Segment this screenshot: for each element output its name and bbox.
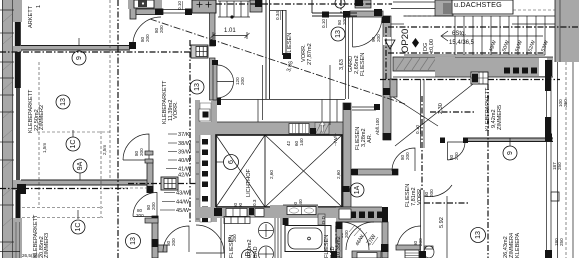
shaft grid box on zimmer5 wall [471,72,488,84]
gard door arc [353,17,383,47]
bad9 pipe wall [275,218,281,258]
circle 13 zimmer2 [56,95,70,109]
far right edge line [572,62,574,258]
chimney block with flues [192,0,216,13]
stair strip channel outline [200,103,211,222]
wall left core black upper [15,22,21,46]
svg-text:10,35m2: 10,35m2 [336,236,342,258]
svg-text:200: 200 [232,234,237,242]
svg-text:200: 200 [342,17,347,25]
stair core vertical wall between corridor and stairs [210,13,216,46]
svg-text:BAD: BAD [253,246,259,258]
svg-text:27,87m2: 27,87m2 [307,43,313,65]
svg-text:FLIESEN: FLIESEN [360,53,366,76]
corridor west wall black post [382,207,388,222]
wall block top with black end [250,0,262,12]
stair direction arrow [441,31,448,41]
section line horizontal y203 [424,202,470,204]
circle 13 vorr1139 [190,80,204,94]
zimmer3 door arc in wall D [133,193,157,217]
section line horizontal y53 stairs [388,52,545,54]
stair walking line dot [230,15,233,18]
top wall black blob left of chimney [210,40,216,46]
section line vertical x341 top [340,0,342,13]
svg-text:250: 250 [563,99,568,107]
svg-text:0.10: 0.10 [321,19,326,28]
bad9 toilet 2 [259,246,274,258]
wall C black corner junction [17,184,26,194]
svg-text:1: 1 [36,5,42,8]
bathtub [285,226,331,252]
shaft grid box on section line left [161,177,178,190]
svg-text:FLIESEN: FLIESEN [355,127,361,150]
svg-text:200: 200 [151,202,156,210]
svg-text:200: 200 [429,189,434,197]
stair strip winder squares [199,109,210,222]
AR door arc [392,148,415,171]
vorraum781 east wall [421,190,425,258]
svg-text:0.10: 0.10 [177,1,182,10]
section line vertical x488 [487,84,489,258]
anteroom south wall piece with fixture [352,251,381,258]
svg-text:FLIESEN: FLIESEN [324,235,330,258]
gard north wall band [350,11,383,17]
right exterior wall posts and lines [545,62,559,258]
zimmer5 west wall thin [421,79,425,148]
bathtub corner blacks [283,218,289,225]
upper wall with door panel [136,9,163,15]
dashed line right edge x566 [565,62,567,258]
vorr/gard divider wall [346,16,349,99]
svg-text:13: 13 [475,231,482,239]
lichthof south wall [196,207,345,218]
svg-text:9,42m2: 9,42m2 [491,109,497,128]
svg-text:5.92: 5.92 [439,217,445,228]
svg-text:13: 13 [60,98,67,106]
svg-text:140: 140 [299,138,304,146]
wall left tick marks [0,10,20,252]
wall D vertical corridor-left upper [147,160,153,192]
svg-text:250: 250 [557,162,562,170]
corridor strip above gallery wall lines [217,100,345,123]
wall left core black lower [16,190,21,218]
svg-text:u.DACHSTEG: u.DACHSTEG [454,0,502,9]
svg-text:26,43m2: 26,43m2 [503,236,509,258]
svg-text:200: 200 [454,152,459,160]
svg-text:15,4/36,5: 15,4/36,5 [449,40,475,46]
step numbers column upper 37-42 [176,132,192,214]
svg-text:250: 250 [559,238,564,246]
svg-text:±0,00: ±0,00 [429,39,435,53]
wall below shaft [210,58,216,100]
svg-text:KLEBEPARKETT: KLEBEPARKETT [28,89,34,133]
svg-text:6: 6 [228,160,235,164]
dimension 5.92 [446,196,448,258]
corridor door arc west [163,226,189,252]
step leader ticks [160,134,177,210]
section line vertical x420 [421,96,423,190]
top right exterior corner wall [555,0,579,62]
wall black square gallery band left [310,128,316,134]
anteroom door arcs crossing [341,222,369,250]
wall corridor vertical x267 [266,0,270,99]
gallery wall horizontal above lichthof [196,122,345,135]
svg-text:6Stg.: 6Stg. [452,31,466,37]
washing machine box [405,250,419,258]
svg-text:FLIESEN: FLIESEN [405,184,411,207]
apartment top wall right section [435,57,553,77]
svg-text:200: 200 [139,148,144,156]
OP20 diamond [412,38,419,48]
svg-text:9: 9 [507,151,514,155]
svg-text:1,5m: 1,5m [42,143,47,153]
svg-text:7,81m2: 7,81m2 [411,187,417,206]
dashed knee-wall horizontal y132 [37,131,110,133]
wall label circle 9 right [503,138,517,160]
section line horizontal y52 [0,51,190,53]
svg-text:9A: 9A [77,161,84,170]
top wall 4 black squares [504,68,537,74]
diagonal line bottom right to zimmer4 [393,97,438,126]
lichthof right cell X [265,135,342,207]
wall left hatch marks [3,14,12,250]
corridor west wall gray [382,222,388,258]
circle 9A mid room [73,159,87,180]
top-left door arc 1 [133,17,161,47]
svg-text:3,28m2: 3,28m2 [361,128,367,147]
svg-text:0.34: 0.34 [275,11,280,20]
svg-text:200: 200 [145,34,150,42]
washbasin double box [287,207,316,215]
svg-text:20,85m2: 20,85m2 [39,236,45,258]
section line horizontal y188 left [0,188,128,190]
stair step numbers diagonal [488,39,550,52]
AR room west wall already lichthof east; AR south wall [352,169,398,175]
fixture box top-left room [128,0,162,9]
svg-text:KLEBEPA: KLEBEPA [515,233,521,258]
wall black post zimmer5 wall right end [545,134,552,142]
lichthof east wall black ends [344,103,351,110]
wall left exterior band [2,0,22,258]
dimension 1.01 with line [211,28,250,39]
circle 1A label [350,183,364,197]
svg-text:Abfl.100: Abfl.100 [375,118,380,135]
svg-text:44/W: 44/W [176,200,190,206]
wall left core dark lower-mid [16,88,20,180]
svg-text:200: 200 [240,77,245,85]
lichthof south wall black posts [214,208,222,216]
svg-text:LICHTHOF: LICHTHOF [246,168,252,197]
section line horizontal y4 top [216,3,392,5]
door arc wall D upper [123,134,149,160]
svg-text:--/W/--: --/W/-- [333,133,338,146]
svg-text:ZIMMER5: ZIMMER5 [497,105,503,130]
svg-text:2,5m: 2,5m [102,145,107,155]
svg-text:1A: 1A [354,185,361,194]
svg-text:43/W: 43/W [176,191,190,197]
stair landing lines [391,2,455,24]
anteroom step hatch marks [349,225,378,245]
zimmer5 door arc [448,142,466,160]
svg-text:26,5(36): 26,5(36) [22,253,40,258]
section line vertical x118 [117,0,119,258]
lichthof outer frame [216,135,342,207]
svg-text:1C: 1C [70,140,77,149]
diagonal dimension 2,30 line [395,84,473,146]
gallery skylight boxes [289,124,309,134]
section line horizontal y112 left part [430,111,475,113]
section line horizontal y79 [380,79,471,81]
wall black cap gard east wall bottom [383,133,392,140]
stair strip west rail [195,100,200,222]
top wall white gap and black end [539,58,547,76]
wall left lower band lines [16,222,20,258]
shaft grid box top [191,45,208,58]
svg-text:2,60: 2,60 [269,170,274,179]
u.DACHSTEG box [452,0,513,14]
section line vertical x190 [189,40,191,224]
stair hall west wall (gard east wall) [383,16,391,140]
svg-text:45/W: 45/W [176,208,190,214]
dashed stub top right of u.dachsteg [513,9,555,11]
svg-text:37/K: 37/K [178,132,190,138]
svg-text:13: 13 [194,83,201,91]
svg-text:FLIESEN: FLIESEN [287,33,293,56]
svg-text:2,60: 2,60 [336,170,341,179]
wall D black end [147,186,154,193]
svg-text:200: 200 [376,34,381,42]
double door vorr1139 [212,60,234,100]
lichthof divider [264,135,266,207]
wall D lower black blobs [152,216,159,223]
svg-text:9: 9 [76,56,83,60]
corridor door arc east [196,225,224,253]
circle 1C zimmer3 [71,210,85,234]
svg-text:AR.: AR. [367,133,373,143]
corridor south wall stub left [145,218,158,223]
svg-text:ARKETT: ARKETT [28,5,34,28]
main stair treads [404,16,555,55]
small stair below lichthof window [224,217,250,224]
gallery hatched pad with arrow [315,122,329,134]
zimmer5 south wall with door [440,134,553,144]
svg-text:1.01: 1.01 [224,28,236,34]
section circle 5 top [335,0,345,8]
circle 1B label [242,250,255,258]
bad9 toilet 1 [259,223,274,239]
circle 1C mid room [66,130,80,151]
svg-text:200: 200 [136,213,144,218]
wall D vertical corridor-left lower [152,216,158,258]
svg-text:200: 200 [159,25,164,33]
svg-text:13: 13 [130,237,137,245]
lichthof left cell X [216,135,265,207]
wc room south wall [396,245,420,250]
dashed corner piece near zimmer3 door [110,187,152,189]
stair treads top middle [218,1,250,17]
top wall black blobs [322,12,329,18]
left corridor wall stubs mid [145,151,153,155]
section line horizontal y27 stairs [388,26,579,28]
svg-text:KLEBEPARKETT: KLEBEPARKETT [162,80,168,124]
circle 13 zimmer4 [471,228,486,243]
svg-text:200: 200 [171,238,176,246]
dimension line vertical 3.85 [262,65,264,120]
svg-text:D·D: D·D [321,216,326,224]
top wall segment above vorraum [312,0,357,16]
zimmer4 second door arc lower left [424,185,452,197]
AR north wall thin [352,107,376,110]
circle 13 vorr2787 [331,27,345,41]
svg-text:OP20: OP20 [400,29,411,53]
lichthof label circle 6 [216,155,239,170]
bidet glyph [318,214,325,225]
wall D bottom-right stub [158,245,167,252]
section line vertical x335 bottom [335,226,337,258]
corridor shaft east wall [283,10,287,55]
dashed knee-wall line vertical x101 [100,131,102,218]
svg-text:KLEBEPARKETT: KLEBEPARKETT [33,214,39,258]
black corner at stair strip top [214,98,221,105]
step labels 46/W 47/W [355,234,378,247]
circle 9 wall label top-left [72,38,86,65]
stair strip body [211,100,217,222]
wall E vertical top-left room east wall [130,0,136,19]
dashed knee-wall horizontal y217 [22,217,103,219]
lichthof south windows [226,209,247,217]
dashed knee-wall line vertical x39 [38,62,40,207]
dashed knee-wall line vertical x110 [109,0,111,180]
svg-text:11,39m2: 11,39m2 [168,100,174,121]
bad9 west wall [221,218,225,258]
top wall piece above gard [355,0,371,8]
bad10 north wall with squares [336,207,382,222]
roof diagonal dash-dot long [150,19,405,104]
wall left core black mid [15,52,21,88]
svg-text:200: 200 [405,152,410,160]
stair top-right enclosure walls [435,0,453,16]
svg-text:200: 200 [344,230,349,238]
wc toilet fixture [424,246,434,258]
svg-text:13: 13 [335,30,342,38]
svg-text:1B: 1B [245,251,252,258]
gard west wall stub [390,79,397,97]
svg-text:1C: 1C [75,223,82,232]
svg-text:42: 42 [286,140,291,146]
wall A horizontal upper-left room divider [21,42,136,50]
section line vertical x386 [385,27,387,79]
circle 13 zimmer3 east [126,234,141,249]
stair south wall hatched [393,57,455,71]
dashed knee-wall horizontal y207 [22,207,103,209]
section line horizontal y183 [128,183,161,185]
wc door arc [397,226,421,250]
svg-text:3,63: 3,63 [339,59,345,70]
washbasin wall band [270,205,318,215]
svg-text:0.3: 0.3 [252,199,257,206]
wall C horizontal mid-left room divider [21,180,148,185]
stair strip tick marks left [196,131,199,219]
lichthof east wall [343,103,351,207]
OP20 level marker triangle [385,40,395,49]
